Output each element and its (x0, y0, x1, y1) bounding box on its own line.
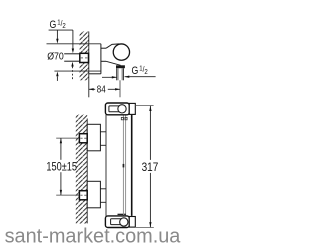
317 dimension line (149, 106, 151, 160)
knob circle (side view) (113, 44, 129, 60)
svg-text:317: 317 (142, 160, 159, 174)
supply stub in wall (side view) (64, 53, 80, 55)
body neck (side view) (101, 47, 106, 49)
150 dimension line (60, 138, 62, 160)
top cap (front view) (105, 103, 129, 115)
bottom cap inner rect (111, 219, 122, 225)
body panel lines (122, 115, 124, 216)
leader from G1/2 underline down to stub (72, 30, 74, 48)
84 dimension right extension line (119, 80, 121, 97)
150 dimension extension lines (56, 137, 79, 139)
leader/arrow from G1/2 underline to O70 top line (56, 30, 58, 39)
bottom cap (front view) (105, 216, 129, 228)
outlet flange (side view) (116, 65, 125, 68)
label G 1/2 (top) (50, 18, 66, 31)
svg-text:150±15: 150±15 (46, 160, 77, 174)
84 dimension line with arrows (89, 88, 95, 90)
svg-text:sant-market.com.ua: sant-market.com.ua (5, 226, 182, 246)
small marks near body bottom (118, 214, 124, 215)
O70 top extension line / escutcheon top edge (47, 43, 101, 45)
top cap end piece (129, 103, 135, 114)
neck lower (front view) (100, 188, 106, 190)
in-wall square lower (front view) (79, 191, 87, 200)
up arrow under stub (G1/2 pair) with dashed tail (71, 62, 73, 67)
wall hatch (side view) (80, 32, 89, 81)
svg-text:Ø70: Ø70 (47, 51, 64, 62)
O70 bottom extension line (54, 70, 101, 72)
escutcheon square upper (front view) (87, 124, 100, 151)
funnel housing bottom edge (side view) (106, 61, 121, 65)
O70 bottom arrow (points up at line) with tail (56, 72, 58, 77)
arrow to outlet left (102, 76, 117, 78)
wall hatch (front view) (76, 115, 87, 224)
svg-text:84: 84 (97, 85, 106, 96)
top cap inner circle (118, 105, 126, 113)
small marks near body top (121, 117, 123, 119)
top cap inner rect (109, 106, 120, 112)
wall face line (front view) (86, 119, 88, 224)
inner marks of in-wall square (side) (81, 57, 83, 59)
small mark on panel line (123, 164, 125, 168)
wall face line (side view) (88, 32, 90, 98)
bottom cap inner circle (120, 218, 128, 226)
escutcheon square lower (front view) (87, 181, 100, 208)
underline of G 1/2 label (49, 29, 73, 31)
outlet nipple (side view) (116, 68, 118, 80)
neck upper (front view) (100, 131, 106, 133)
label G 1/2 (outlet) (132, 64, 148, 77)
bottom cap end piece (129, 217, 135, 228)
arrow to outlet right (125, 76, 156, 78)
body (front view) (105, 115, 107, 216)
escutcheon (side view) (100, 44, 102, 74)
317 dimension extension lines (135, 105, 153, 107)
in-wall union square (side view) (80, 53, 89, 62)
funnel housing top edge (side view) (106, 44, 119, 48)
in-wall square upper (front view) (79, 134, 87, 143)
